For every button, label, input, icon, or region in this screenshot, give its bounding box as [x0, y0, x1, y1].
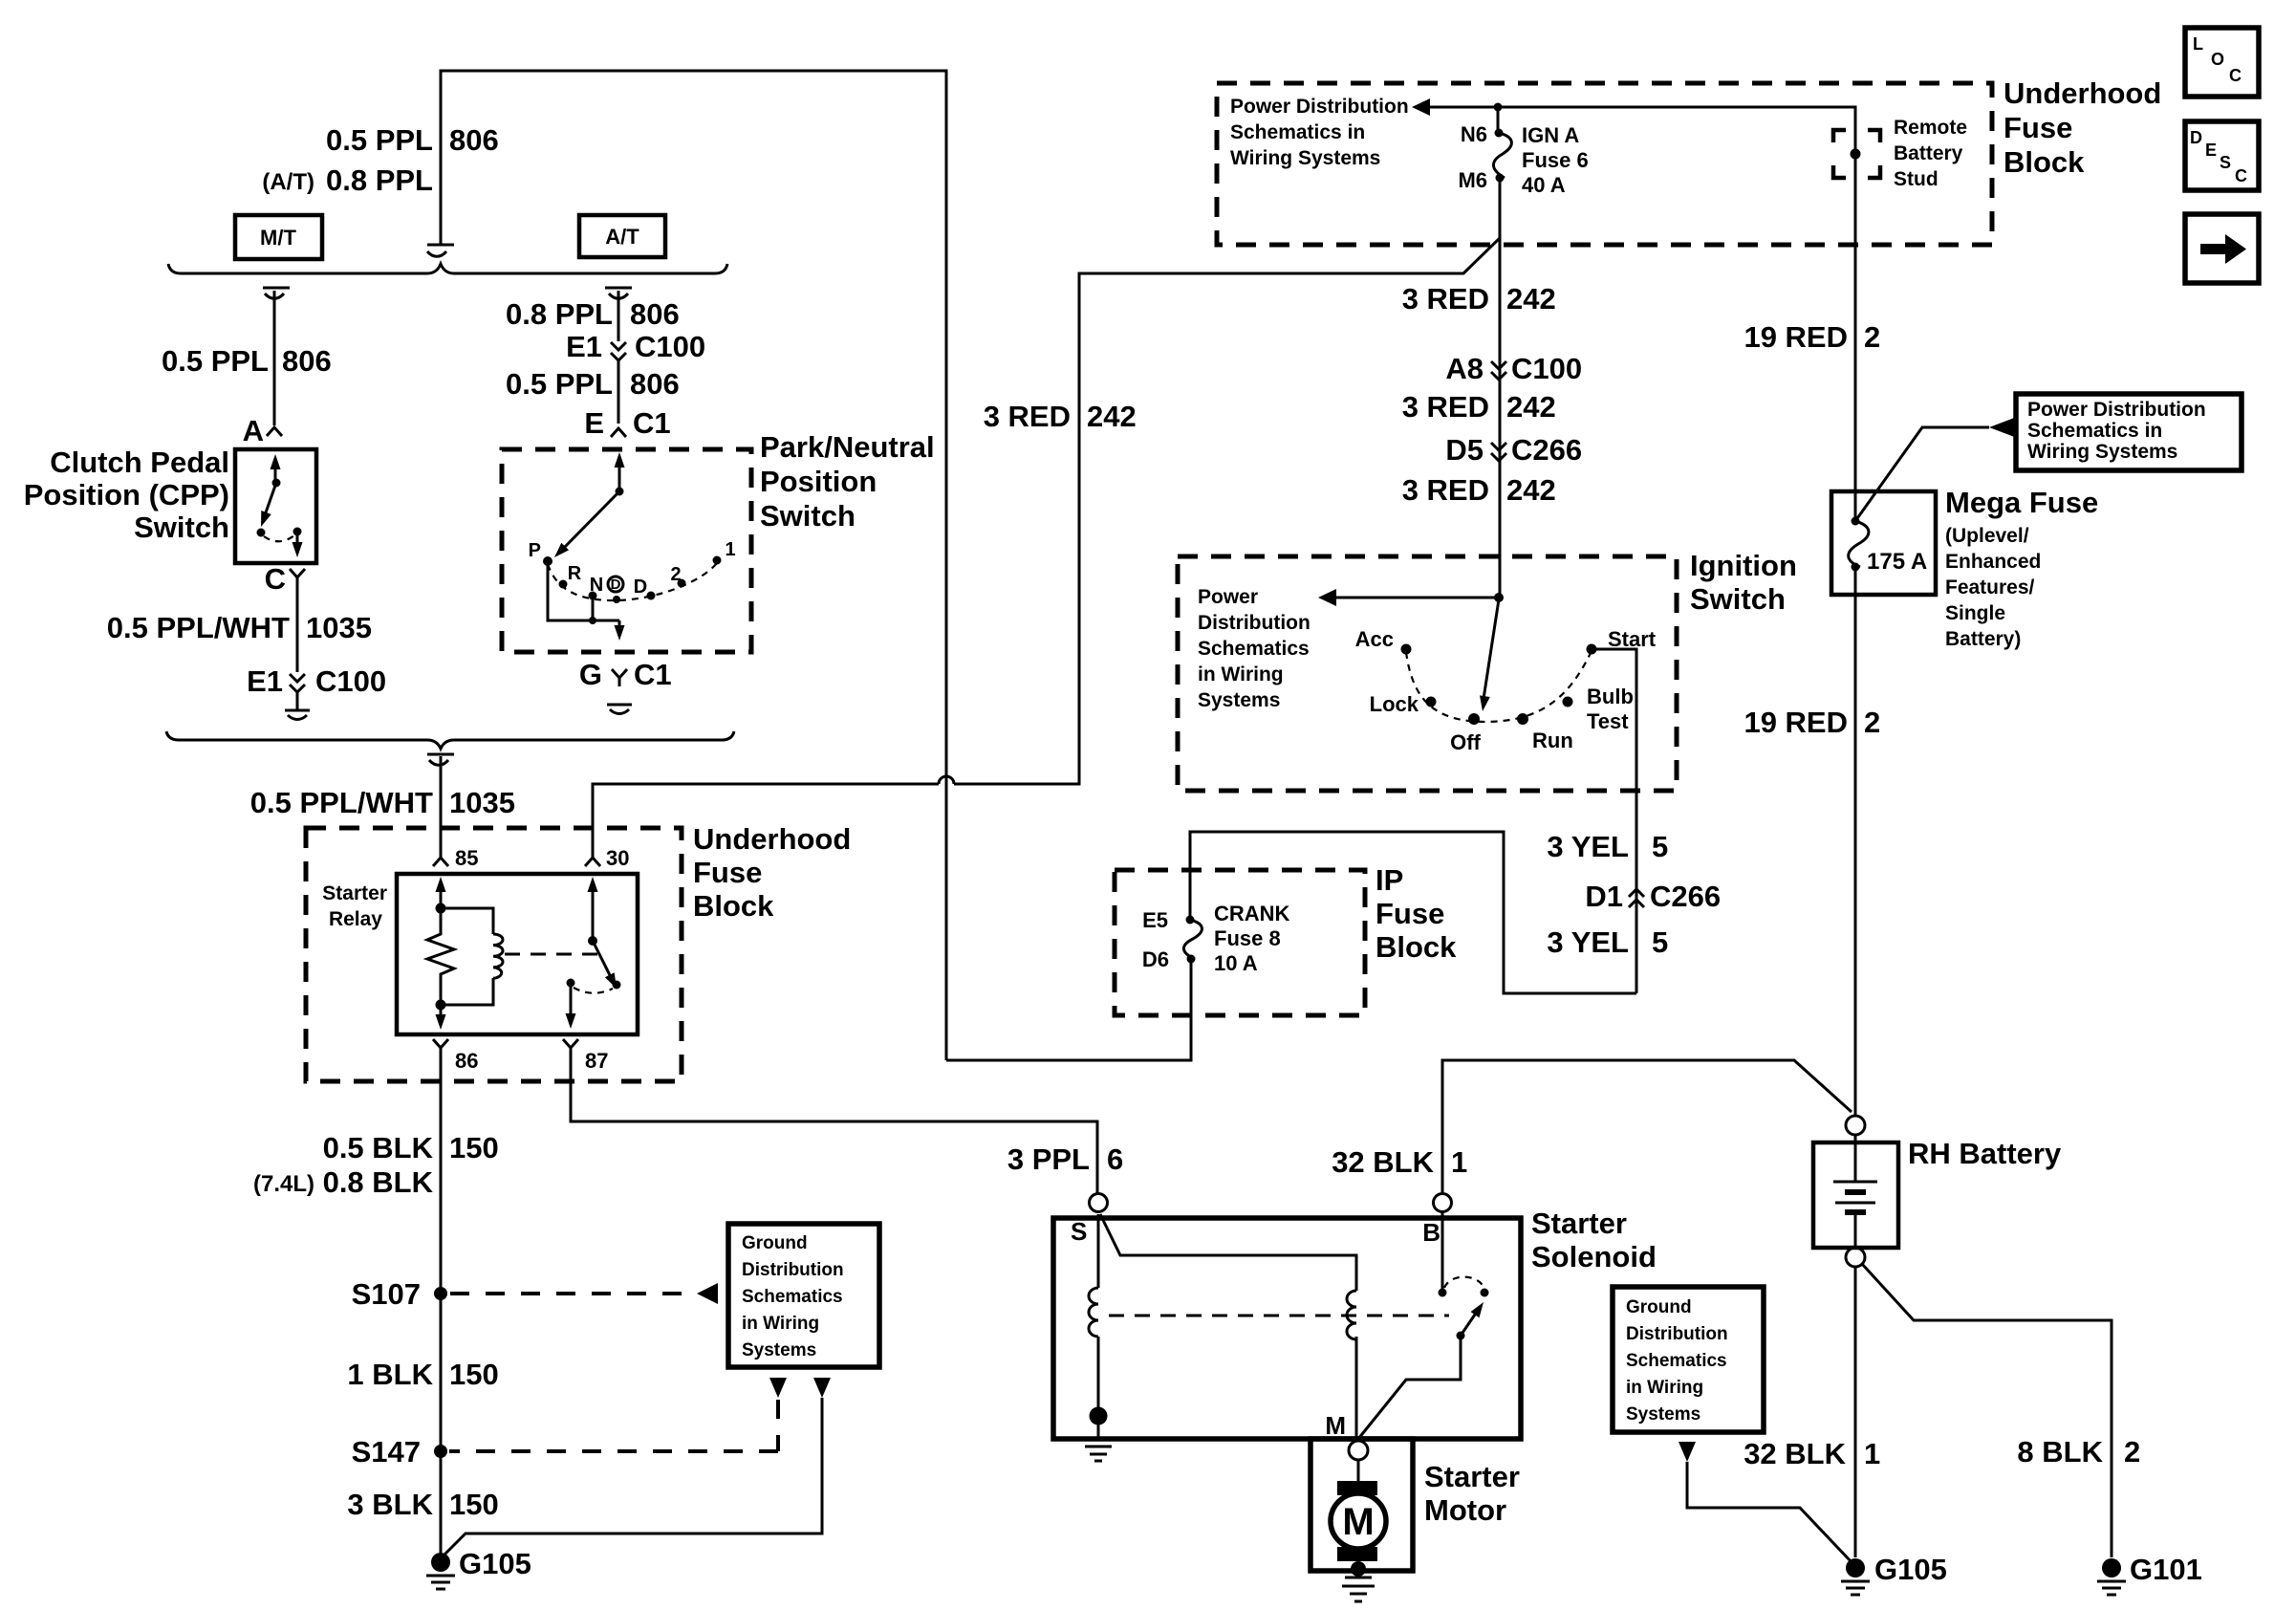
svg-text:Block: Block [693, 889, 774, 923]
svg-text:Power Distribution: Power Distribution [2027, 399, 2206, 421]
svg-text:C100: C100 [1511, 352, 1582, 385]
svg-text:Position: Position [760, 465, 877, 498]
svg-text:Acc: Acc [1355, 627, 1394, 651]
svg-text:D: D [611, 577, 621, 593]
svg-text:Position (CPP): Position (CPP) [24, 478, 229, 511]
svg-text:2: 2 [1864, 320, 1880, 354]
svg-text:Start: Start [1608, 627, 1657, 651]
svg-text:3 YEL: 3 YEL [1547, 830, 1629, 863]
svg-text:in Wiring: in Wiring [1626, 1378, 1703, 1398]
svg-text:Single: Single [1945, 602, 2005, 624]
svg-text:E1: E1 [247, 664, 283, 698]
svg-text:0.5 PPL: 0.5 PPL [506, 367, 613, 401]
svg-text:Systems: Systems [1198, 689, 1280, 711]
svg-text:L: L [2193, 34, 2203, 54]
svg-text:150: 150 [449, 1131, 499, 1164]
svg-text:5: 5 [1652, 925, 1668, 959]
svg-text:IP: IP [1375, 863, 1403, 897]
svg-text:M: M [1325, 1411, 1346, 1440]
svg-text:32 BLK: 32 BLK [1744, 1437, 1846, 1470]
svg-text:G105: G105 [1874, 1553, 1947, 1586]
svg-text:C100: C100 [635, 330, 705, 363]
svg-text:150: 150 [449, 1358, 499, 1391]
svg-text:Starter: Starter [322, 882, 387, 904]
svg-text:Wiring Systems: Wiring Systems [1230, 147, 1380, 169]
svg-text:Schematics: Schematics [1198, 638, 1310, 660]
svg-text:N: N [590, 575, 603, 596]
svg-text:Battery): Battery) [1945, 628, 2021, 650]
svg-text:(A/T): (A/T) [262, 169, 314, 195]
svg-text:19 RED: 19 RED [1744, 320, 1848, 354]
svg-text:2: 2 [1864, 706, 1880, 739]
svg-text:Power Distribution: Power Distribution [1230, 96, 1409, 118]
svg-text:Wiring Systems: Wiring Systems [2027, 441, 2177, 463]
svg-text:0.5 PPL: 0.5 PPL [162, 344, 269, 378]
svg-text:S: S [1071, 1217, 1087, 1246]
svg-text:30: 30 [606, 846, 629, 870]
svg-text:3 BLK: 3 BLK [347, 1488, 433, 1521]
svg-text:0.5 PPL/WHT: 0.5 PPL/WHT [250, 786, 433, 819]
svg-text:Stud: Stud [1894, 168, 1939, 190]
svg-text:Ground: Ground [1626, 1297, 1692, 1317]
svg-text:D1: D1 [1585, 880, 1623, 913]
svg-text:32 BLK: 32 BLK [1332, 1145, 1434, 1179]
svg-text:6: 6 [1107, 1142, 1123, 1176]
svg-text:Test: Test [1587, 709, 1629, 733]
svg-text:Block: Block [2004, 145, 2085, 179]
svg-text:Off: Off [1450, 730, 1481, 754]
svg-text:Features/: Features/ [1945, 577, 2035, 598]
svg-text:Starter: Starter [1531, 1207, 1627, 1240]
svg-text:Lock: Lock [1370, 692, 1419, 716]
svg-text:E5: E5 [1142, 908, 1168, 932]
svg-text:3 YEL: 3 YEL [1547, 925, 1629, 959]
svg-text:Distribution: Distribution [1198, 612, 1310, 634]
svg-text:in Wiring: in Wiring [1198, 664, 1284, 685]
svg-text:D6: D6 [1142, 947, 1169, 971]
svg-text:0.5 BLK: 0.5 BLK [323, 1131, 434, 1164]
svg-text:IGN A: IGN A [1522, 123, 1579, 147]
svg-text:85: 85 [455, 846, 478, 870]
svg-text:RH Battery: RH Battery [1908, 1137, 2062, 1170]
svg-text:10 A: 10 A [1214, 951, 1258, 975]
svg-text:E: E [584, 406, 604, 440]
svg-text:in Wiring: in Wiring [742, 1314, 819, 1334]
svg-text:19 RED: 19 RED [1744, 706, 1848, 739]
svg-text:A: A [243, 414, 264, 447]
svg-text:G101: G101 [2130, 1553, 2202, 1586]
svg-text:2: 2 [670, 564, 681, 585]
svg-text:3 PPL: 3 PPL [1007, 1142, 1090, 1176]
svg-text:Fuse 6: Fuse 6 [1522, 148, 1589, 172]
svg-text:M/T: M/T [260, 226, 296, 250]
svg-text:A8: A8 [1445, 352, 1484, 385]
svg-text:Motor: Motor [1424, 1493, 1506, 1527]
svg-text:Park/Neutral: Park/Neutral [760, 430, 935, 464]
svg-text:D: D [2190, 128, 2202, 147]
svg-text:Schematics: Schematics [1626, 1351, 1727, 1371]
svg-text:M6: M6 [1458, 168, 1487, 192]
svg-text:(7.4L): (7.4L) [253, 1171, 314, 1197]
svg-text:Block: Block [1375, 930, 1457, 964]
svg-text:Run: Run [1532, 729, 1573, 752]
svg-text:806: 806 [630, 297, 680, 331]
svg-text:D5: D5 [1445, 433, 1484, 467]
svg-text:C1: C1 [634, 658, 672, 691]
svg-text:C266: C266 [1511, 433, 1582, 467]
svg-text:R: R [568, 563, 582, 584]
svg-text:Schematics in: Schematics in [1230, 121, 1365, 143]
svg-text:N6: N6 [1461, 122, 1487, 146]
svg-text:0.8 PPL: 0.8 PPL [506, 297, 613, 331]
svg-text:Systems: Systems [1626, 1404, 1700, 1425]
svg-text:0.5 PPL: 0.5 PPL [326, 123, 433, 157]
svg-text:806: 806 [282, 344, 332, 378]
svg-text:1: 1 [1451, 1145, 1467, 1179]
svg-text:Distribution: Distribution [1626, 1324, 1728, 1344]
svg-text:242: 242 [1506, 282, 1556, 315]
svg-text:Clutch Pedal: Clutch Pedal [50, 446, 229, 479]
svg-text:M: M [1342, 1501, 1374, 1543]
svg-text:0.8 PPL: 0.8 PPL [326, 163, 433, 197]
svg-text:C: C [265, 562, 286, 596]
svg-text:0.5 PPL/WHT: 0.5 PPL/WHT [107, 611, 290, 644]
svg-text:Fuse: Fuse [1375, 897, 1444, 930]
svg-text:Fuse 8: Fuse 8 [1214, 926, 1281, 950]
svg-text:Distribution: Distribution [742, 1260, 844, 1280]
svg-text:Remote: Remote [1894, 117, 1967, 139]
svg-text:G: G [579, 658, 602, 691]
svg-text:Schematics: Schematics [742, 1287, 843, 1307]
svg-text:Underhood: Underhood [693, 822, 851, 856]
svg-text:E1: E1 [566, 330, 602, 363]
svg-text:1035: 1035 [306, 611, 372, 644]
svg-text:C266: C266 [1650, 880, 1721, 913]
svg-text:Battery: Battery [1894, 142, 1963, 164]
svg-text:3 RED: 3 RED [1402, 390, 1489, 424]
svg-text:D: D [634, 577, 647, 598]
svg-text:806: 806 [630, 367, 680, 401]
svg-text:2: 2 [2124, 1435, 2140, 1469]
svg-text:Solenoid: Solenoid [1531, 1240, 1657, 1273]
svg-text:Ignition: Ignition [1690, 549, 1797, 582]
svg-text:Switch: Switch [134, 511, 229, 544]
svg-text:S147: S147 [352, 1435, 421, 1469]
svg-text:Relay: Relay [329, 908, 382, 930]
svg-text:C: C [2235, 166, 2247, 185]
svg-text:Enhanced: Enhanced [1945, 551, 2041, 573]
svg-text:G105: G105 [459, 1547, 531, 1580]
svg-text:242: 242 [1506, 390, 1556, 424]
svg-text:C100: C100 [315, 664, 386, 698]
svg-text:Power: Power [1198, 586, 1258, 608]
svg-text:Bulb: Bulb [1587, 685, 1634, 708]
svg-text:Schematics in: Schematics in [2027, 420, 2162, 442]
svg-text:806: 806 [449, 123, 499, 157]
svg-text:87: 87 [585, 1049, 608, 1073]
svg-text:O: O [2211, 50, 2224, 69]
svg-text:Switch: Switch [1690, 582, 1786, 616]
svg-text:175 A: 175 A [1867, 549, 1927, 575]
svg-text:8 BLK: 8 BLK [2017, 1435, 2103, 1469]
svg-text:242: 242 [1087, 400, 1137, 433]
svg-text:C: C [2229, 66, 2242, 85]
svg-text:Underhood: Underhood [2004, 76, 2161, 110]
svg-text:242: 242 [1506, 473, 1556, 507]
svg-text:Starter: Starter [1424, 1460, 1520, 1493]
svg-text:1 BLK: 1 BLK [347, 1358, 433, 1391]
svg-text:3 RED: 3 RED [984, 400, 1071, 433]
svg-text:Systems: Systems [742, 1340, 816, 1360]
svg-text:C1: C1 [633, 406, 671, 440]
svg-text:S: S [2220, 153, 2231, 172]
svg-text:Switch: Switch [760, 499, 856, 533]
svg-text:5: 5 [1652, 830, 1668, 863]
svg-text:Ground: Ground [742, 1233, 808, 1253]
svg-text:1: 1 [725, 539, 735, 560]
svg-text:3 RED: 3 RED [1402, 473, 1489, 507]
svg-text:Fuse: Fuse [693, 856, 762, 889]
svg-text:Mega Fuse: Mega Fuse [1945, 486, 2098, 519]
svg-text:CRANK: CRANK [1214, 902, 1290, 925]
svg-text:86: 86 [455, 1049, 478, 1073]
svg-text:1: 1 [1864, 1437, 1880, 1470]
svg-text:40 A: 40 A [1522, 173, 1566, 197]
svg-text:B: B [1422, 1218, 1440, 1247]
svg-text:3 RED: 3 RED [1402, 282, 1489, 315]
svg-text:A/T: A/T [605, 225, 639, 249]
svg-text:Fuse: Fuse [2004, 111, 2072, 144]
svg-text:0.8 BLK: 0.8 BLK [323, 1165, 434, 1199]
svg-text:E: E [2205, 141, 2217, 160]
svg-text:(Uplevel/: (Uplevel/ [1945, 525, 2029, 547]
svg-text:P: P [529, 540, 541, 561]
svg-text:150: 150 [449, 1488, 499, 1521]
svg-text:1035: 1035 [449, 786, 515, 819]
svg-text:S107: S107 [352, 1277, 421, 1311]
